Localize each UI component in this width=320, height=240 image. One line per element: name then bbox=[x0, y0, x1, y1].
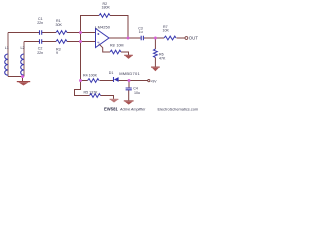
wire L2 riser and coil chord bbox=[23, 42, 25, 77]
ground G5 under R5 bbox=[110, 99, 119, 102]
ground G4 under C4 bbox=[124, 101, 134, 105]
capacitor C3 bbox=[141, 36, 143, 40]
svg-text:D1: D1 bbox=[109, 71, 114, 75]
wire R8 iset from op-amp to ground bbox=[99, 44, 129, 55]
inductor L1 bbox=[5, 54, 8, 75]
wire ground stem under coils bbox=[22, 77, 24, 82]
svg-text:180K: 180K bbox=[102, 6, 111, 10]
svg-text:30K: 30K bbox=[56, 23, 63, 27]
svg-text:R8: R8 bbox=[110, 44, 115, 48]
wire vertical bus x=80.5 down to bottom row bbox=[75, 33, 90, 96]
wire C4 stem bbox=[128, 81, 130, 101]
wire bottom power row y=80.5 bbox=[81, 80, 148, 82]
wire L1 riser and coil chord bbox=[7, 33, 9, 77]
capacitor C1 bbox=[40, 30, 42, 35]
svg-text:L2: L2 bbox=[21, 46, 25, 50]
wire R6 stem bbox=[154, 38, 156, 67]
terminal +9V bbox=[148, 80, 150, 82]
svg-text:ElectroSchematics.com: ElectroSchematics.com bbox=[158, 106, 199, 111]
wire feedback loop top bbox=[81, 16, 129, 39]
wire op-amp output rail bbox=[109, 37, 185, 39]
svg-text:LM4250: LM4250 bbox=[95, 24, 110, 29]
resistor R8 iset bbox=[110, 50, 121, 54]
resistor R1 30K (rail1) bbox=[56, 31, 67, 35]
junction node G ground rail bbox=[21, 75, 24, 78]
svg-text:22n: 22n bbox=[37, 51, 43, 55]
ground G3 under R6 bbox=[151, 67, 160, 71]
svg-text:EW581: EW581 bbox=[104, 106, 118, 111]
resistor R3 (rail2) bbox=[56, 40, 67, 44]
svg-text:R5 137K: R5 137K bbox=[84, 90, 99, 94]
junction node B rail2 bbox=[79, 40, 82, 43]
svg-text:9: 9 bbox=[56, 51, 58, 55]
svg-text:10M: 10M bbox=[117, 44, 124, 48]
inductor L2 bbox=[21, 54, 24, 75]
resistor R5 bottom row2 bbox=[90, 94, 101, 98]
svg-text:L1: L1 bbox=[5, 46, 9, 50]
resistor R4 bottom row bbox=[88, 79, 99, 83]
svg-text:OUT: OUT bbox=[189, 36, 198, 41]
op-amp U1 LM4250 bbox=[96, 29, 110, 48]
junction node F bottom row C4 bbox=[128, 79, 131, 82]
svg-text:C2: C2 bbox=[38, 47, 43, 51]
capacitor C2 bbox=[40, 39, 42, 44]
ground G2 under R8 bbox=[124, 55, 133, 59]
junction node A rail1 bbox=[79, 31, 82, 34]
resistor R7 out bbox=[164, 36, 176, 40]
diode D1 MMBD701 bbox=[114, 77, 119, 82]
junction node D output-R6 bbox=[154, 37, 157, 40]
resistor R2 180K feedback bbox=[99, 14, 110, 18]
junction node C output-feedback bbox=[127, 37, 130, 40]
svg-text:10K: 10K bbox=[163, 29, 170, 33]
svg-text:Active Amplifier: Active Amplifier bbox=[119, 107, 146, 111]
svg-text:R4 100K: R4 100K bbox=[83, 74, 98, 78]
junction node E bottom row left bbox=[79, 79, 82, 82]
svg-text:MMBD701: MMBD701 bbox=[119, 71, 140, 76]
wire rail1 top input bbox=[8, 32, 96, 34]
svg-text:47K: 47K bbox=[159, 56, 166, 60]
svg-text:10u: 10u bbox=[134, 91, 140, 95]
resistor R6 vertical bbox=[154, 49, 158, 57]
ground G1 under coils bbox=[17, 82, 30, 86]
svg-text:1u: 1u bbox=[139, 30, 143, 34]
wire bottom rail under coils bbox=[8, 76, 24, 78]
terminal OUT bbox=[185, 37, 188, 40]
wire R5 to ground bbox=[101, 96, 114, 99]
svg-text:22n: 22n bbox=[37, 21, 43, 25]
wire rail2 lower input bbox=[24, 41, 96, 43]
capacitor C4 bbox=[126, 88, 132, 90]
svg-text:+9V: +9V bbox=[150, 79, 157, 83]
